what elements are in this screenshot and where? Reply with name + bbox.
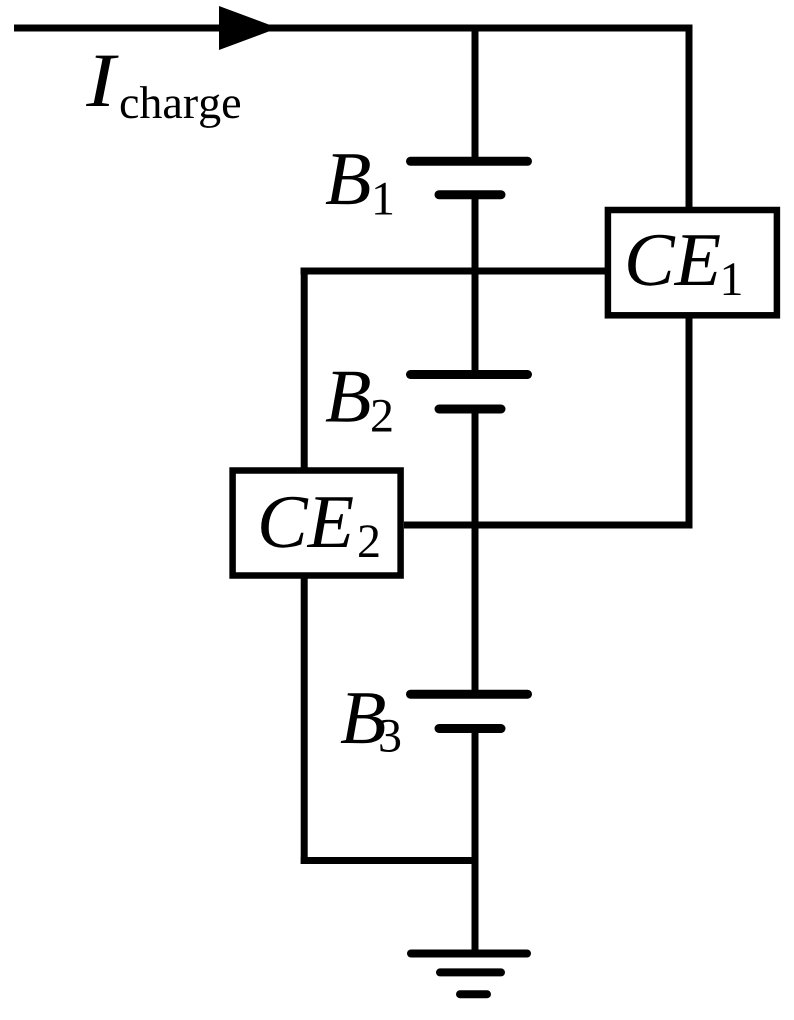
wire: CE1 bottom to node 2: [686, 315, 693, 529]
label CE2: [261, 497, 378, 557]
ground: [411, 954, 527, 995]
wire: node 2 horizontal (CE2 right to right vertical): [404, 522, 693, 529]
wire: B3 to ground: [472, 728, 479, 953]
wire: center vertical from top wire to B1: [472, 28, 479, 162]
box CE2: [233, 471, 401, 576]
wire: node 1 horizontal (B1/B2 junction to CE1 left): [301, 268, 609, 275]
battery B2: [411, 375, 528, 410]
label B1: [326, 154, 392, 214]
box CE1: [608, 210, 777, 315]
battery B3: [411, 694, 528, 728]
label CE1: [628, 235, 740, 295]
label B2: [326, 372, 392, 432]
wire: right vertical from top corner to CE1 top: [686, 25, 693, 211]
wire: center vertical B1 to B2: [472, 194, 479, 375]
label B3: [341, 693, 400, 752]
label I charge: [86, 56, 240, 128]
wire: input feed top horizontal: [14, 25, 689, 32]
wire: CE2 bottom vertical: [301, 576, 308, 864]
wire: center vertical B2 to B3 (crosses node 2): [472, 409, 479, 694]
wire: bottom horizontal (CE2 leg to center): [301, 857, 475, 864]
arrowhead of charge current: [219, 6, 278, 50]
battery B1: [411, 161, 528, 194]
wire: left branch vertical node1 to CE2 top: [301, 268, 308, 471]
